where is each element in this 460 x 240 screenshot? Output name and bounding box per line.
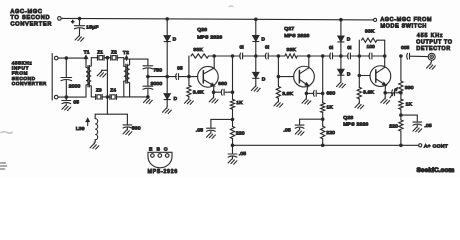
- wire: diode chain 1: [166, 19, 168, 36]
- node: Q27 collector rail: [307, 54, 311, 58]
- svg-text:.05: .05: [424, 123, 431, 129]
- transistor Q26: [198, 66, 219, 87]
- svg-text:.05: .05: [196, 128, 203, 134]
- svg-text:.05: .05: [239, 151, 246, 157]
- svg-text:AGC-MGC FROM: AGC-MGC FROM: [381, 17, 433, 23]
- wire: Q27 base: [278, 76, 293, 78]
- wire: Q27 base riser: [277, 56, 279, 77]
- diode D (chain2 lower): [253, 72, 259, 77]
- svg-text:05: 05: [177, 65, 183, 70]
- node: diode chain 1 / base line: [165, 75, 169, 79]
- svg-text:CONVERTER: CONVERTER: [12, 81, 47, 86]
- svg-text:D: D: [347, 37, 351, 42]
- svg-text:220: 220: [236, 130, 245, 136]
- ground (filter tap): [97, 70, 106, 77]
- svg-text:Q28: Q28: [343, 115, 353, 121]
- svg-text:A+ CONT: A+ CONT: [424, 143, 448, 149]
- svg-text:0I: 0I: [329, 45, 333, 50]
- capacitor .05 (stage2 bypass): [295, 125, 304, 128]
- wire: Z1-Z2 junction: [105, 57, 109, 59]
- wire: top AGC rail: [61, 18, 373, 20]
- resistor 1K (Q27): [321, 103, 325, 113]
- ground (15uF): [75, 34, 84, 41]
- ground (3.9K Q28): [355, 102, 364, 109]
- svg-text:.05: .05: [283, 127, 290, 133]
- svg-text:MODE SWITCH: MODE SWITCH: [381, 23, 428, 29]
- wire: chain B: [322, 56, 324, 103]
- svg-text:OUTPUT TO: OUTPUT TO: [416, 40, 452, 46]
- node: T2 ground node: [146, 95, 150, 99]
- capacitor .01 (1): [240, 53, 243, 59]
- wire: to .05 (stage3): [401, 114, 417, 116]
- capacitor .05 input: [65, 97, 67, 100]
- capacitor 560: [126, 114, 128, 125]
- transistor Q28: [370, 66, 391, 87]
- svg-text:DETECTOR: DETECTOR: [416, 46, 450, 52]
- node: 680 to chain B: [321, 92, 325, 96]
- svg-text:330: 330: [405, 85, 414, 91]
- svg-text:+: +: [71, 20, 74, 26]
- node: chain C top: [399, 54, 403, 58]
- wire: base line Q26: [148, 76, 177, 78]
- svg-text:Q26: Q26: [197, 27, 207, 33]
- resistor 3.9K (Q28): [358, 76, 360, 88]
- ground (Q28 emitter): [384, 93, 386, 97]
- svg-text:3.9K: 3.9K: [363, 90, 374, 96]
- node: Q28 base junction: [358, 74, 362, 78]
- svg-text:560: 560: [132, 125, 141, 131]
- svg-text:Z4: Z4: [110, 87, 116, 92]
- node: 2000pF top: [65, 56, 69, 60]
- node: chain A top: [231, 54, 235, 58]
- node: diode chain 1 on rail: [165, 17, 169, 21]
- wire: Q26 collector: [213, 56, 215, 68]
- node: Q28 emitter: [383, 91, 387, 95]
- wire: Q28 base riser: [358, 56, 360, 76]
- wire: chain A: [232, 56, 234, 99]
- svg-text:0I: 0I: [347, 45, 351, 50]
- capacitor 680 (Q26): [214, 91, 221, 93]
- node: IF node (750/3000): [146, 75, 150, 79]
- wire: Q28 collector: [384, 56, 386, 68]
- svg-text:CONVERTER: CONVERTER: [11, 22, 53, 28]
- capacitor 3000: [147, 77, 149, 86]
- svg-text:33K: 33K: [193, 47, 203, 53]
- svg-text:Z2: Z2: [111, 49, 117, 54]
- ground (3.9K Q27): [274, 100, 283, 107]
- node: diode chain 2 mid rail: [254, 54, 258, 58]
- node: diode chain 3 mid rail: [339, 54, 343, 58]
- wire: Q27 emitter: [306, 86, 308, 94]
- wire: Z4 to ground node: [104, 96, 109, 98]
- svg-text:MPS 2926: MPS 2926: [343, 121, 368, 127]
- capacitor .01 (3): [330, 53, 333, 59]
- svg-text:T2: T2: [123, 50, 129, 56]
- svg-text:D: D: [262, 77, 266, 82]
- node: 680 to chain A: [231, 90, 235, 94]
- svg-text:3000: 3000: [151, 81, 163, 87]
- terminal: input bottom: [54, 95, 58, 99]
- capacitor 15uF electrolytic: [79, 19, 81, 26]
- node: Q27 base riser top: [277, 54, 281, 58]
- svg-text:D: D: [347, 72, 351, 77]
- svg-text:Z3: Z3: [96, 87, 102, 92]
- diode D (chain3 upper): [338, 36, 344, 41]
- node: Q27 base junction: [277, 75, 281, 79]
- svg-text:TO SECOND: TO SECOND: [11, 15, 51, 21]
- node: chain A mid: [231, 118, 235, 122]
- wire: bottom A+ rail: [233, 144, 419, 146]
- terminal: output jack to detector: [428, 53, 435, 60]
- capacitor 100 (parallel 33K): [369, 53, 372, 59]
- node: Q28 collector rail: [383, 54, 387, 58]
- node: Z3-Z4 junction: [106, 95, 110, 99]
- svg-text:D: D: [174, 96, 178, 101]
- node: 2000pF bottom: [65, 95, 69, 99]
- inductor L39: [94, 114, 96, 118]
- node: 15uF tap: [78, 17, 82, 21]
- node: diode chain 3 on rail: [339, 18, 343, 22]
- wire: diode chain 2: [255, 19, 257, 35]
- diode D (chain1 lower): [164, 94, 170, 99]
- svg-text:3.9K: 3.9K: [193, 89, 204, 95]
- node: chain A bottom: [231, 144, 235, 148]
- node: chain C mid: [399, 113, 403, 117]
- svg-text:INPUT: INPUT: [12, 65, 29, 70]
- svg-text:05: 05: [73, 100, 79, 106]
- node: Q28 base riser top: [358, 54, 362, 58]
- wire: mid rail stage2-3: [309, 55, 331, 57]
- capacitor .05 coupling Q26: [176, 74, 179, 80]
- svg-text:MPS 2926: MPS 2926: [197, 35, 222, 41]
- node: Q26 collector rail: [212, 54, 216, 58]
- node: chain B top: [321, 54, 325, 58]
- capacitor .01 (2): [265, 53, 268, 59]
- svg-text:100: 100: [367, 44, 376, 49]
- svg-text:1K: 1K: [236, 100, 243, 106]
- resistor 220 (Q27): [321, 126, 325, 139]
- wire: Q28 emitter: [384, 85, 386, 93]
- svg-text:Q27: Q27: [284, 26, 294, 32]
- terminal: AGC-MGC input: [58, 17, 62, 21]
- ground (chain3): [337, 81, 346, 88]
- node: Q26 emitter: [212, 90, 216, 94]
- wire: to .05 bypass (stage1): [211, 118, 233, 120]
- svg-text:1K: 1K: [327, 105, 334, 111]
- svg-text:D: D: [262, 36, 266, 41]
- wire: Z2 to T2: [119, 57, 124, 59]
- transistor Q27: [294, 66, 315, 87]
- wire: input bottom: [58, 96, 86, 98]
- svg-text:MPS 2926: MPS 2926: [284, 33, 309, 39]
- diode D (chain2 upper): [253, 36, 259, 41]
- capacitor .01 (4): [348, 53, 351, 59]
- terminal: AGC-MGC from mode switch: [374, 18, 377, 21]
- capacitor 750: [147, 59, 149, 66]
- svg-text:0I: 0I: [265, 45, 269, 50]
- node: chain C bottom: [399, 144, 403, 148]
- svg-text:680: 680: [327, 91, 336, 97]
- node: chain B bottom: [321, 144, 325, 148]
- svg-text:220: 220: [389, 124, 398, 130]
- svg-text:Z1: Z1: [97, 49, 103, 54]
- wire: input top: [58, 57, 86, 59]
- diode D (chain3 lower): [338, 69, 344, 74]
- svg-text:SECOND: SECOND: [12, 76, 36, 81]
- svg-text:33K: 33K: [365, 29, 375, 35]
- resistor 1K (Q28): [399, 99, 403, 109]
- terminal: input top: [54, 56, 58, 60]
- resistor 220 (Q28): [399, 120, 403, 131]
- wire: filter center tap: [106, 58, 108, 97]
- svg-text:455 KHz: 455 KHz: [417, 33, 444, 39]
- capacitor .005 output: [407, 53, 410, 59]
- svg-text:680: 680: [218, 81, 227, 87]
- svg-text:2000: 2000: [69, 84, 81, 90]
- svg-text:3.9K: 3.9K: [282, 91, 293, 97]
- resistor 3.9K (Q26 base): [188, 77, 190, 86]
- diode D (chain1 upper): [164, 36, 170, 41]
- svg-text:L39: L39: [76, 126, 85, 132]
- capacitor 2000: [65, 58, 67, 77]
- svg-text:005: 005: [401, 45, 410, 50]
- svg-text:1K: 1K: [406, 102, 413, 108]
- capacitor variable (Q28 emitter): [385, 92, 392, 94]
- svg-text:15μF: 15μF: [86, 25, 98, 31]
- capacitor .05 (stage3): [413, 122, 422, 125]
- resistor 1K (Q26): [230, 99, 234, 109]
- wire: filter tap down: [106, 97, 108, 114]
- bracket line for input label: [51, 54, 53, 101]
- ground (3.9K Q26): [185, 98, 194, 105]
- wire: Q27 collector: [308, 56, 310, 68]
- wire: chain C: [400, 56, 402, 81]
- svg-text:750: 750: [153, 68, 162, 74]
- node: Q27 emitter: [305, 92, 309, 96]
- svg-text:SeekIC.com: SeekIC.com: [417, 167, 455, 174]
- svg-text:AGC-MGC: AGC-MGC: [11, 9, 43, 15]
- wire: diode chain 3: [340, 20, 342, 36]
- ground (chain1): [163, 107, 172, 114]
- node: Q26 base junction: [187, 75, 191, 79]
- wire: Q28 base: [359, 75, 370, 77]
- wire: to .05 bypass (stage2): [300, 118, 323, 120]
- node: diode chain 2 on rail: [254, 18, 258, 22]
- capacitor .05 (below rail): [232, 145, 234, 154]
- node: chain B mid: [321, 117, 325, 121]
- resistor 3.9K (Q27): [277, 77, 279, 87]
- node: emitter cap to chain C: [399, 91, 403, 95]
- ground (Q26 emitter): [213, 92, 215, 96]
- terminal: A+ CONT: [419, 144, 422, 147]
- svg-text:T1: T1: [84, 50, 90, 56]
- svg-text:D: D: [173, 36, 177, 41]
- resistor 220 (Q26): [230, 126, 234, 138]
- wire: L39/560 tee: [95, 113, 127, 115]
- ground (Q27 emitter): [305, 93, 307, 97]
- capacitor 680 (Q27): [306, 92, 314, 94]
- svg-text:0I: 0I: [240, 45, 244, 50]
- svg-text:220: 220: [326, 130, 335, 136]
- ground (chain2): [251, 85, 260, 92]
- svg-text:33K: 33K: [286, 47, 296, 53]
- wire: Q26 emitter: [213, 86, 215, 92]
- capacitor .05 (stage1 bypass): [207, 128, 216, 131]
- resistor 330: [399, 81, 403, 93]
- ground (output jack): [427, 63, 436, 70]
- wire: mid rail stage1-2: [214, 55, 240, 57]
- ground (L39): [90, 142, 99, 149]
- svg-text:MPS-2926: MPS-2926: [148, 169, 178, 175]
